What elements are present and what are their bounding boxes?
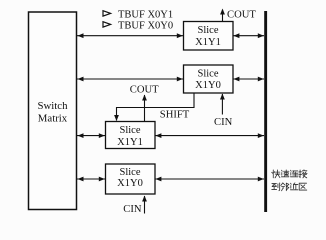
svg-text:X1Y1: X1Y1 — [117, 137, 143, 148]
switch matrix block — [29, 12, 77, 210]
wire matrix to lower slice X1Y1 — [77, 133, 105, 138]
svg-text:X1Y0: X1Y0 — [117, 178, 143, 189]
svg-text:SHIFT: SHIFT — [160, 110, 190, 121]
slice X1Y1 lower block — [106, 122, 156, 149]
svg-text:Slice: Slice — [198, 25, 219, 36]
svg-text:X1Y0: X1Y0 — [195, 80, 221, 91]
wire upper slice X1Y0 to bus — [233, 77, 264, 82]
svg-text:Slice: Slice — [198, 68, 219, 79]
svg-text:X1Y1: X1Y1 — [195, 37, 221, 48]
接 — [299, 170, 307, 178]
svg-text:Switch: Switch — [38, 100, 69, 112]
wire COUT middle — [130, 85, 159, 122]
wire matrix to lower slice X1Y0 — [77, 177, 105, 182]
slice X1Y1 upper block — [184, 22, 234, 51]
区 — [299, 183, 307, 190]
邻 — [281, 183, 289, 191]
slice X1Y0 upper block — [184, 65, 234, 93]
svg-text:COUT: COUT — [130, 85, 159, 96]
svg-text:Slice: Slice — [120, 125, 141, 136]
svg-text:CIN: CIN — [214, 117, 233, 128]
svg-text:TBUF X0Y1: TBUF X0Y1 — [118, 9, 173, 20]
wire matrix to upper slice X1Y0 — [77, 77, 183, 82]
速 — [281, 170, 289, 177]
近 — [290, 183, 298, 190]
wire COUT top — [220, 9, 256, 22]
label fast connect to neighbours (hanzi line 2) — [272, 183, 307, 191]
wire upper slice X1Y1 to bus — [233, 33, 264, 38]
svg-text:TBUF X0Y0: TBUF X0Y0 — [118, 20, 173, 31]
wire lower slice X1Y1 to bus — [155, 133, 264, 138]
wire CIN middle — [214, 94, 233, 128]
svg-text:CIN: CIN — [123, 204, 142, 215]
wire CIN bottom — [123, 196, 147, 216]
到 — [272, 183, 280, 191]
wire lower slice X1Y0 to bus — [155, 177, 264, 182]
fast-connect bus bar — [264, 11, 267, 212]
svg-text:COUT: COUT — [227, 9, 256, 20]
wire matrix to upper slice X1Y1 — [77, 33, 183, 38]
buffer TBUF X0Y0 — [103, 20, 173, 31]
svg-text:Slice: Slice — [120, 167, 141, 178]
连 — [290, 170, 298, 177]
slice X1Y0 lower block — [106, 164, 156, 194]
wire SHIFT — [114, 93, 194, 121]
label fast connect to neighbours (hanzi line 1) — [272, 170, 307, 178]
快 — [272, 170, 280, 178]
buffer TBUF X0Y1 — [103, 9, 173, 20]
svg-text:Matrix: Matrix — [38, 113, 68, 125]
